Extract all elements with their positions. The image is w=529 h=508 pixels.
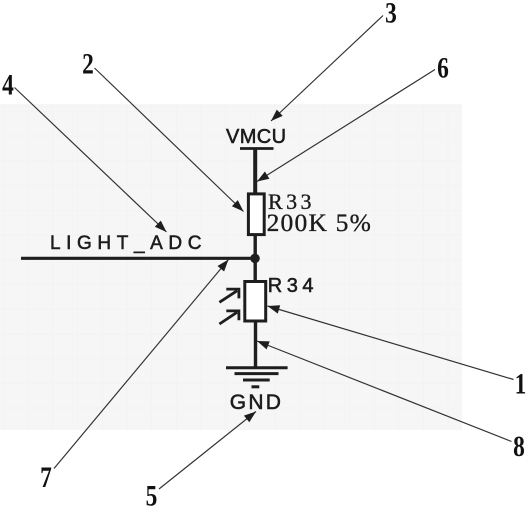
wire R33 to junction xyxy=(253,234,256,262)
wire VMCU to R33 xyxy=(253,149,257,195)
svg-text:R34: R34 xyxy=(268,275,318,297)
svg-text:1: 1 xyxy=(515,367,527,400)
svg-text:LIGHT_ADC: LIGHT_ADC xyxy=(50,233,207,254)
photoresistor R34 xyxy=(245,282,266,322)
wire LIGHT_ADC xyxy=(21,257,257,260)
leader 7 xyxy=(54,260,229,469)
svg-text:3: 3 xyxy=(385,0,397,29)
svg-text:5: 5 xyxy=(146,479,158,508)
svg-text:VMCU: VMCU xyxy=(226,126,287,148)
leader 6 xyxy=(257,70,435,182)
svg-text:6: 6 xyxy=(437,51,449,84)
leader 8 xyxy=(257,341,512,442)
svg-text:2: 2 xyxy=(82,47,94,80)
leader 5 xyxy=(159,412,256,490)
wire R34 to ground xyxy=(254,321,257,368)
svg-text:4: 4 xyxy=(2,68,14,101)
power symbol VMCU bar xyxy=(240,147,274,150)
leader 3 xyxy=(271,16,383,122)
leader 2 xyxy=(95,68,244,212)
svg-text:7: 7 xyxy=(40,460,52,493)
leader 1 xyxy=(268,306,514,380)
svg-text:200K 5%: 200K 5% xyxy=(267,208,372,237)
light arrow lower xyxy=(219,312,237,324)
leader 4 xyxy=(15,88,167,233)
resistor R33 xyxy=(248,194,264,235)
schematic background panel xyxy=(0,104,462,430)
svg-text:8: 8 xyxy=(513,429,525,462)
ground symbol xyxy=(226,368,288,387)
light arrow upper xyxy=(219,291,237,303)
wire junction to R34 xyxy=(253,255,256,282)
svg-text:GND: GND xyxy=(230,391,283,414)
junction node xyxy=(250,254,260,264)
